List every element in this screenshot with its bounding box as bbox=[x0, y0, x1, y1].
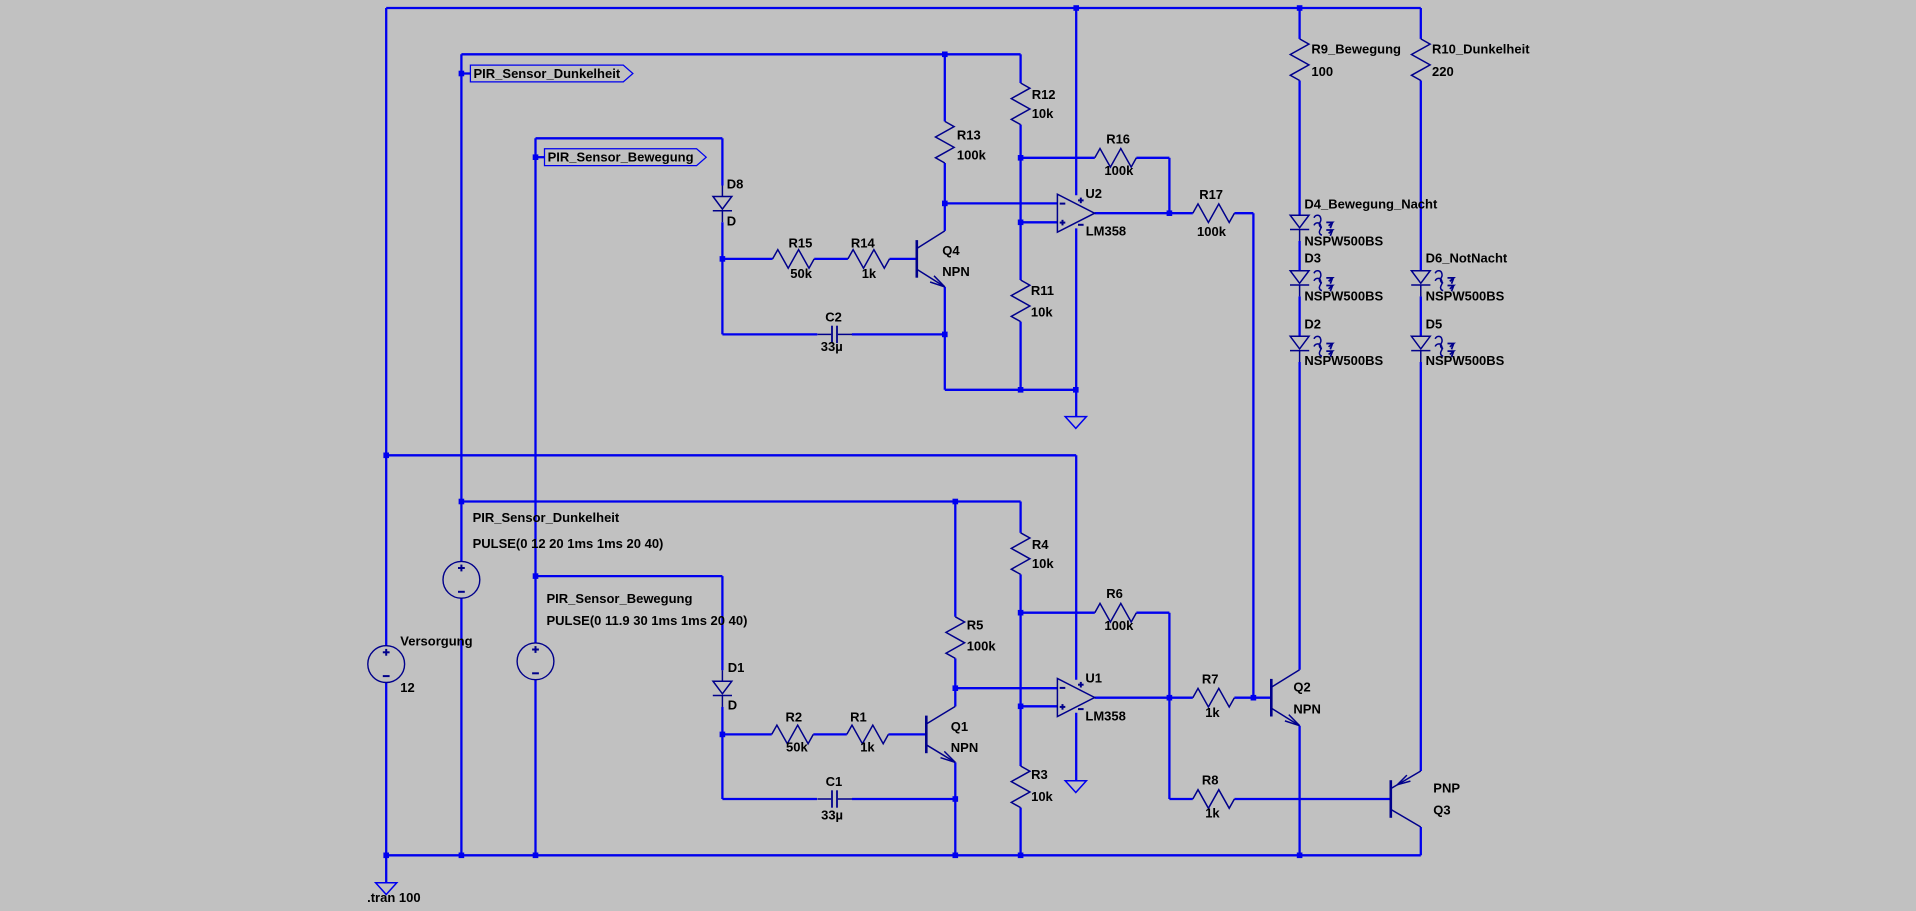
wire R7 to Q2 base bbox=[1234, 697, 1271, 699]
svg-text:D1: D1 bbox=[728, 660, 745, 675]
svg-text:LM358: LM358 bbox=[1085, 709, 1125, 724]
resistor R17 bbox=[1193, 204, 1235, 223]
net flag PIR_Sensor_Bewegung bbox=[545, 149, 707, 166]
wire C1 right bbox=[852, 798, 955, 800]
wire R4 bottom lead bbox=[1019, 574, 1021, 612]
wire R12 top lead bbox=[1019, 54, 1021, 83]
junction bottom rail / Q2 bbox=[1297, 853, 1303, 859]
svg-text:R2: R2 bbox=[786, 710, 803, 725]
LED D2 light arrows bbox=[1314, 336, 1333, 357]
junction R17/R7 at Q2 base bbox=[1251, 695, 1257, 701]
wire R14 to Q4 base bbox=[890, 258, 917, 260]
wire local ground rail upper bbox=[945, 389, 1076, 391]
resistor R4 bbox=[1011, 533, 1030, 575]
resistor R16 bbox=[1095, 149, 1137, 168]
wire bottom ground rail bbox=[386, 854, 1421, 856]
svg-text:10k: 10k bbox=[1032, 556, 1054, 571]
svg-text:PIR_Sensor_Bewegung: PIR_Sensor_Bewegung bbox=[547, 591, 693, 606]
wire R9 to D4 bbox=[1298, 81, 1300, 216]
wire D5 to Q3 emitter bbox=[1420, 362, 1422, 771]
svg-text:NPN: NPN bbox=[942, 264, 969, 279]
wire D1 cathode to C1 bbox=[721, 707, 723, 799]
svg-text:R15: R15 bbox=[789, 236, 813, 251]
wire R3 bottom lead bbox=[1019, 808, 1021, 856]
svg-text:Q4: Q4 bbox=[942, 243, 960, 258]
wire R13 top lead bbox=[944, 54, 946, 121]
ground under U2 bbox=[1065, 417, 1086, 429]
junction flag2 pin bbox=[533, 154, 539, 160]
svg-text:R7: R7 bbox=[1202, 671, 1219, 686]
LED D3 bbox=[1290, 271, 1309, 297]
svg-text:D8: D8 bbox=[727, 176, 744, 191]
wire D8 anode bbox=[721, 138, 723, 185]
wire R13 bottom lead bbox=[944, 163, 946, 203]
wire Q1 collector bbox=[954, 688, 956, 706]
wire node to R2 bbox=[722, 733, 771, 735]
svg-text:LM358: LM358 bbox=[1086, 223, 1126, 238]
wire R6 right bbox=[1136, 612, 1169, 614]
wire C1 left bbox=[722, 798, 817, 800]
voltage source V2 PIR_Sensor_Dunkelheit bbox=[443, 561, 480, 598]
wire R12 bottom lead bbox=[1019, 125, 1021, 158]
wire Q2 emitter to rail bbox=[1298, 726, 1300, 856]
resistor R5 bbox=[946, 617, 965, 659]
wire R5 top lead bbox=[954, 502, 956, 617]
svg-text:1k: 1k bbox=[1205, 806, 1220, 821]
junction R12/R16 bbox=[1018, 155, 1024, 161]
wire U1 output bbox=[1095, 697, 1170, 699]
svg-text:D6_NotNacht: D6_NotNacht bbox=[1426, 251, 1508, 266]
wire U2 V+ supply bbox=[1075, 8, 1077, 195]
svg-text:100k: 100k bbox=[967, 639, 997, 654]
svg-text:12: 12 bbox=[400, 680, 414, 695]
resistor R2 bbox=[772, 725, 814, 744]
wire ground stem bottom-left bbox=[385, 855, 387, 882]
LED D2 bbox=[1290, 336, 1309, 362]
wire Dunkelheit net lower bbox=[461, 500, 1020, 502]
junction R13 top bbox=[942, 52, 948, 58]
wire top supply rail bbox=[386, 7, 1421, 9]
voltage source V3 PIR_Sensor_Bewegung bbox=[517, 643, 554, 680]
transistor Q1 bbox=[926, 706, 955, 762]
wire PIR_Sensor_Dunkelheit top net bbox=[461, 53, 1020, 55]
junction U2 output bbox=[1167, 210, 1173, 216]
svg-text:NPN: NPN bbox=[951, 740, 978, 755]
svg-text:R13: R13 bbox=[957, 128, 981, 143]
transistor Q2 bbox=[1271, 670, 1299, 726]
junction bottom rail / V2 bbox=[459, 853, 465, 859]
resistor R3 bbox=[1011, 766, 1030, 808]
LED D4 bbox=[1290, 215, 1309, 241]
wire V3 to Bewegung net bbox=[534, 138, 536, 643]
svg-text:NSPW500BS: NSPW500BS bbox=[1426, 289, 1505, 304]
junction D1/R2 bbox=[720, 732, 726, 738]
wire U2 V- to ground bbox=[1075, 228, 1077, 416]
wire U1 V+ supply bbox=[1075, 455, 1077, 680]
svg-text:Q3: Q3 bbox=[1433, 802, 1450, 817]
wire R4 top lead bbox=[1019, 502, 1021, 533]
svg-text:PIR_Sensor_Dunkelheit: PIR_Sensor_Dunkelheit bbox=[474, 66, 621, 81]
svg-text:100k: 100k bbox=[1104, 618, 1134, 633]
junction ground rail / U2 V- bbox=[1073, 387, 1079, 393]
wire PIR_Sensor_Bewegung top net bbox=[536, 137, 723, 139]
svg-text:D: D bbox=[727, 214, 736, 229]
wire flag1 stub bbox=[461, 72, 470, 74]
junction bottom rail / Q1 bbox=[953, 853, 959, 859]
svg-text:C1: C1 bbox=[826, 774, 843, 789]
svg-text:50k: 50k bbox=[786, 740, 808, 755]
junction node A bbox=[942, 201, 948, 207]
wire C2 right bbox=[852, 333, 945, 335]
wire supply branch to U1 bbox=[386, 454, 1076, 456]
junction bottom rail / V3 bbox=[533, 853, 539, 859]
svg-text:NSPW500BS: NSPW500BS bbox=[1304, 353, 1383, 368]
ground bottom-left bbox=[376, 883, 397, 895]
junction top rail / U2 supply bbox=[1073, 5, 1079, 11]
wire divider to R11 bbox=[1019, 158, 1021, 280]
LED D6 bbox=[1411, 271, 1430, 297]
svg-text:10k: 10k bbox=[1031, 305, 1053, 320]
op-amp U1 bbox=[1057, 679, 1094, 717]
wire R1 to Q1 base bbox=[888, 733, 926, 735]
junction R5 top bbox=[953, 499, 959, 505]
resistor R12 bbox=[1011, 83, 1030, 125]
resistor R13 bbox=[936, 121, 955, 163]
wire Q4 collector bbox=[944, 203, 946, 231]
wire R6 to U1 output node bbox=[1168, 613, 1170, 698]
svg-text:100k: 100k bbox=[1104, 163, 1134, 178]
svg-text:33µ: 33µ bbox=[821, 808, 843, 823]
LED D3 light arrows bbox=[1314, 271, 1333, 292]
resistor R6 bbox=[1095, 603, 1137, 622]
wire Q3 collector to rail bbox=[1420, 827, 1422, 855]
wire U2 output bbox=[1095, 212, 1170, 214]
wire U1 V- to ground bbox=[1075, 713, 1077, 781]
resistor R10_Dunkelheit bbox=[1412, 39, 1431, 81]
wire C2 left bbox=[722, 333, 817, 335]
junction R11 bottom bbox=[1018, 387, 1024, 393]
svg-text:R17: R17 bbox=[1199, 187, 1223, 202]
svg-text:R11: R11 bbox=[1031, 283, 1054, 298]
junction R4/R6 bbox=[1018, 610, 1024, 616]
wire R11 bottom lead bbox=[1019, 322, 1021, 390]
svg-text:.tran 100: .tran 100 bbox=[367, 890, 420, 905]
junction top rail / R9 bbox=[1297, 5, 1303, 11]
svg-text:R12: R12 bbox=[1032, 87, 1056, 102]
svg-text:D: D bbox=[728, 698, 737, 713]
svg-text:D2: D2 bbox=[1304, 316, 1321, 331]
svg-text:D5: D5 bbox=[1426, 316, 1443, 331]
LED D5 bbox=[1411, 336, 1430, 362]
wire Q4 emitter down bbox=[944, 287, 946, 390]
svg-text:100: 100 bbox=[1311, 64, 1333, 79]
junction C2/Q4 emitter bbox=[942, 332, 948, 338]
LED D6 light arrows bbox=[1435, 271, 1454, 292]
LED D4 light arrows bbox=[1314, 215, 1333, 236]
resistor R1 bbox=[847, 725, 889, 744]
svg-text:1k: 1k bbox=[862, 266, 877, 281]
junction left border / supply branch bbox=[383, 453, 389, 459]
junction C1/Q1 emitter bbox=[953, 796, 959, 802]
wire Q1 emitter down bbox=[954, 762, 956, 855]
wire D1 anode bbox=[721, 576, 723, 670]
wire divider to R3 bbox=[1019, 613, 1021, 766]
svg-text:R3: R3 bbox=[1031, 767, 1048, 782]
svg-text:PIR_Sensor_Bewegung: PIR_Sensor_Bewegung bbox=[548, 150, 694, 165]
transistor Q4 bbox=[917, 231, 945, 287]
wire R4 node to R6 bbox=[1021, 612, 1095, 614]
svg-text:NSPW500BS: NSPW500BS bbox=[1426, 353, 1505, 368]
wire R7 left lead bbox=[1169, 697, 1192, 699]
svg-text:NPN: NPN bbox=[1293, 702, 1320, 717]
svg-text:R14: R14 bbox=[851, 236, 876, 251]
wire left border upper bbox=[385, 8, 387, 646]
junction bottom rail / ground bbox=[383, 853, 389, 859]
svg-text:R10_Dunkelheit: R10_Dunkelheit bbox=[1432, 42, 1530, 57]
junction node B bbox=[953, 685, 959, 691]
svg-text:50k: 50k bbox=[790, 266, 812, 281]
svg-text:PULSE(0 12 20 1ms 1ms 20 40): PULSE(0 12 20 1ms 1ms 20 40) bbox=[473, 536, 664, 551]
wire V2 to Dunkelheit net bbox=[460, 54, 462, 561]
wire R16 to U2 output node bbox=[1168, 158, 1170, 213]
svg-text:220: 220 bbox=[1432, 64, 1454, 79]
svg-text:PNP: PNP bbox=[1433, 780, 1460, 795]
svg-text:NSPW500BS: NSPW500BS bbox=[1304, 234, 1383, 249]
wire R16 right bbox=[1136, 157, 1169, 159]
capacitor C1 bbox=[817, 790, 852, 807]
wire output node down to R8 bbox=[1168, 698, 1170, 799]
resistor R15 bbox=[773, 250, 815, 269]
wire R8 to Q3 base bbox=[1234, 798, 1390, 800]
wire R15 to R14 bbox=[814, 258, 848, 260]
resistor R7 bbox=[1193, 688, 1235, 707]
svg-text:R1: R1 bbox=[850, 710, 867, 725]
svg-text:Versorgung: Versorgung bbox=[400, 634, 472, 649]
svg-text:Q2: Q2 bbox=[1293, 680, 1310, 695]
junction flag1 pin bbox=[459, 71, 465, 77]
wire R5 bottom lead bbox=[954, 658, 956, 688]
LED D5 light arrows bbox=[1435, 336, 1454, 357]
junction D8/R15 bbox=[720, 256, 726, 262]
wire V3 bottom bbox=[534, 680, 536, 856]
wire R12 node to R16 bbox=[1021, 157, 1095, 159]
net flag PIR_Sensor_Dunkelheit bbox=[470, 65, 633, 82]
junction U2 + input bbox=[1018, 220, 1024, 226]
svg-text:PULSE(0 11.9 30 1ms 1ms 20 40): PULSE(0 11.9 30 1ms 1ms 20 40) bbox=[547, 613, 748, 628]
svg-text:1k: 1k bbox=[860, 740, 875, 755]
junction bottom rail / R3 bbox=[1018, 853, 1024, 859]
wire R2 to R1 bbox=[813, 733, 847, 735]
resistor R14 bbox=[848, 250, 890, 269]
svg-text:R16: R16 bbox=[1106, 131, 1130, 146]
wire R17 left lead bbox=[1169, 212, 1192, 214]
svg-text:D4_Bewegung_Nacht: D4_Bewegung_Nacht bbox=[1304, 197, 1438, 212]
wire D6 to D5 bbox=[1420, 296, 1422, 336]
wire D2 to Q2 collector bbox=[1298, 362, 1300, 670]
junction U1 + input bbox=[1018, 704, 1024, 710]
resistor R11 bbox=[1011, 280, 1030, 322]
diode D8 bbox=[713, 186, 732, 223]
capacitor C2 bbox=[817, 326, 852, 343]
wire node to R15 bbox=[722, 258, 772, 260]
wire node A to U2 inverting input bbox=[945, 202, 1058, 204]
wire flag2 stub bbox=[536, 156, 545, 158]
svg-text:10k: 10k bbox=[1032, 106, 1054, 121]
svg-text:NSPW500BS: NSPW500BS bbox=[1304, 289, 1383, 304]
wire R8 left lead bbox=[1169, 798, 1192, 800]
wire Bewegung net lower bbox=[536, 575, 723, 577]
svg-text:U1: U1 bbox=[1085, 671, 1102, 686]
wire to U1 non-inverting input bbox=[1021, 705, 1058, 707]
svg-text:Q1: Q1 bbox=[951, 719, 968, 734]
junction Dunkelheit lower net bbox=[459, 499, 465, 505]
wire D3 to D2 bbox=[1298, 296, 1300, 336]
op-amp U2 bbox=[1057, 194, 1094, 232]
transistor Q3 bbox=[1391, 771, 1421, 827]
svg-text:R4: R4 bbox=[1032, 537, 1049, 552]
wire V2 bottom bbox=[460, 598, 462, 855]
junction Bewegung lower net bbox=[533, 573, 539, 579]
svg-text:100k: 100k bbox=[1197, 224, 1227, 239]
resistor R8 bbox=[1193, 790, 1235, 809]
svg-text:C2: C2 bbox=[825, 310, 842, 325]
svg-text:R8: R8 bbox=[1202, 773, 1219, 788]
wire left border lower bbox=[385, 683, 387, 856]
wire node B to U1 inverting input bbox=[955, 687, 1057, 689]
resistor R9_Bewegung bbox=[1290, 39, 1309, 81]
svg-text:D3: D3 bbox=[1304, 251, 1321, 266]
wire R17 right lead bbox=[1234, 212, 1253, 214]
wire R17 down to Q2 base node bbox=[1252, 213, 1254, 698]
svg-text:R5: R5 bbox=[967, 617, 984, 632]
ground under U1 bbox=[1065, 781, 1086, 793]
junction U1 output bbox=[1167, 695, 1173, 701]
wire to U2 non-inverting input bbox=[1021, 221, 1058, 223]
wire D4 to D3 bbox=[1298, 241, 1300, 271]
wire R9 top lead bbox=[1298, 8, 1300, 39]
svg-text:PIR_Sensor_Dunkelheit: PIR_Sensor_Dunkelheit bbox=[473, 510, 620, 525]
wire R10 top lead bbox=[1420, 8, 1422, 39]
svg-text:R9_Bewegung: R9_Bewegung bbox=[1311, 42, 1401, 57]
diode D1 bbox=[713, 670, 732, 707]
svg-text:1k: 1k bbox=[1205, 705, 1220, 720]
svg-text:33µ: 33µ bbox=[821, 339, 843, 354]
svg-text:100k: 100k bbox=[957, 148, 987, 163]
svg-text:R6: R6 bbox=[1106, 586, 1123, 601]
svg-text:U2: U2 bbox=[1085, 186, 1102, 201]
wire R10 to D6 bbox=[1420, 81, 1422, 271]
voltage source V1 Versorgung bbox=[368, 646, 405, 683]
svg-text:10k: 10k bbox=[1031, 789, 1053, 804]
wire D8 cathode to C2 bbox=[721, 222, 723, 334]
